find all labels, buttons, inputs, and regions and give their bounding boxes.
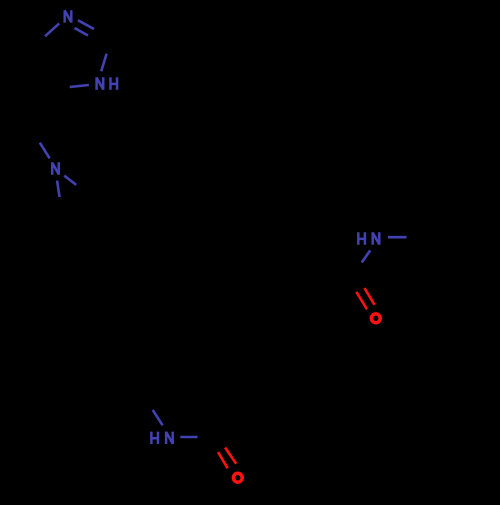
C=O double bond line 2 (red half) — [225, 448, 236, 464]
bond N3-C4 (blue half) — [45, 23, 59, 36]
bond CH2-N amine (blue half) — [40, 143, 50, 159]
bond N-C(=O) (blue half) — [362, 250, 371, 262]
bond N-C ring b (blue half) — [57, 181, 59, 198]
bond N3=C2 outer line (blue half) — [78, 20, 94, 29]
bond N1-C5 (blue half) — [70, 85, 89, 87]
C=O double bond line 2 (red half) — [364, 288, 374, 305]
bond N-C right (blue half) — [388, 236, 407, 239]
atom label N3 (imidazole top nitrogen) — [65, 10, 72, 22]
bond N-C(=O) horizontal (blue half) — [180, 436, 197, 439]
atom label HN (bottom amide NH) — [151, 432, 172, 444]
bond N-C ring a (blue half) — [64, 176, 76, 185]
bond N3=C2 inner line (blue half) — [75, 28, 89, 36]
atom label O (top-right carbonyl oxygen) — [371, 314, 380, 323]
atom label N1 H (imidazole NH) — [97, 77, 118, 89]
C=O double bond line 1 (red half) — [218, 452, 228, 468]
C=O double bond line 1 (red half) — [356, 292, 367, 310]
bond C2-N1 (blue half) — [101, 54, 106, 72]
atom label O (bottom carbonyl oxygen) — [233, 473, 242, 482]
atom label HN (top-right amide NH) — [358, 232, 379, 244]
bond C-N (blue half, into bottom amide NH) — [153, 410, 163, 425]
atom label N (tertiary amine) — [52, 162, 59, 174]
